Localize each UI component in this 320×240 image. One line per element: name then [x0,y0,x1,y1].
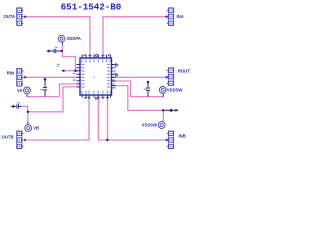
svg-text:INB: INB [179,134,186,139]
svg-text:INA: INA [177,14,184,19]
svg-text:OUTA: OUTA [3,14,15,19]
svg-text:651-1542-B0: 651-1542-B0 [61,2,122,13]
svg-text:VA: VA [17,88,23,93]
svg-text:RIN: RIN [7,70,14,75]
svg-text:ROUT: ROUT [178,69,190,74]
svg-text:u: u [93,75,95,79]
svg-text:VDDSW: VDDSW [167,87,183,92]
svg-text:VB: VB [33,125,39,130]
svg-text:OUTB: OUTB [2,135,14,140]
svg-text:VSSSW: VSSSW [142,122,157,127]
svg-text:VDDPA: VDDPA [67,36,81,41]
